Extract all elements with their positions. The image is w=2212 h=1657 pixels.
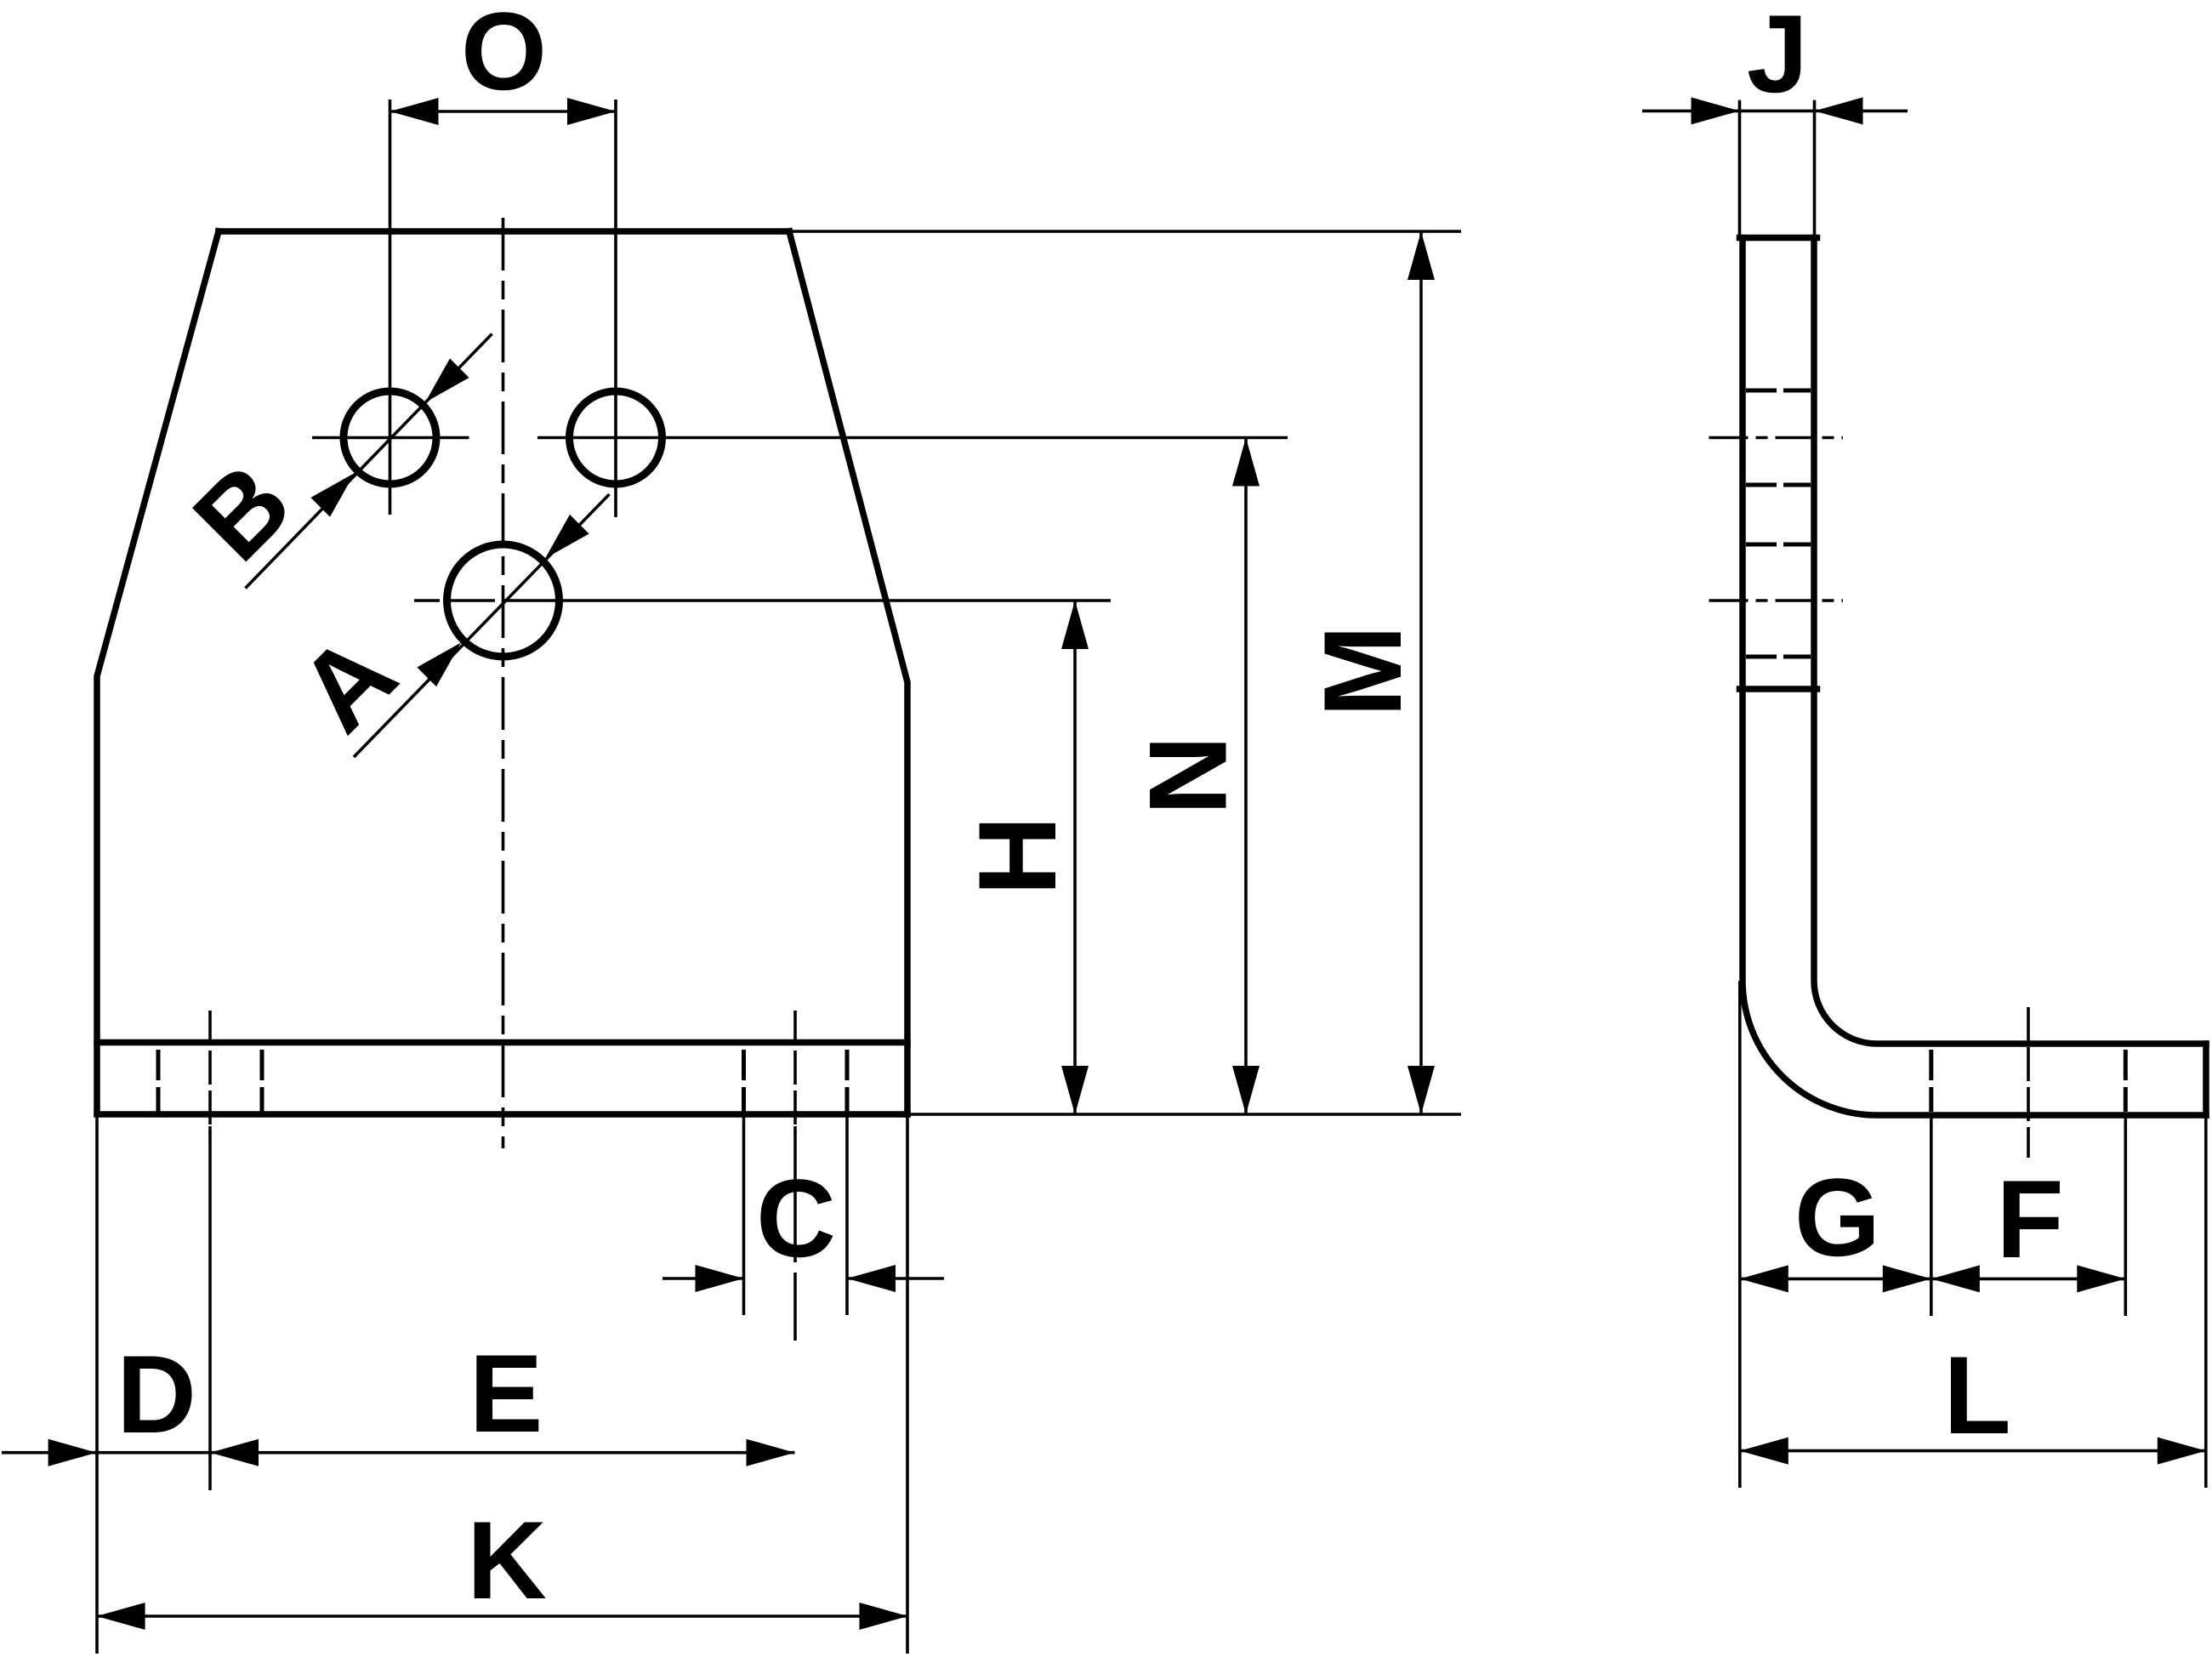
svg-text:F: F <box>1996 1157 2063 1281</box>
svg-text:K: K <box>467 1498 547 1622</box>
svg-text:N: N <box>1126 736 1250 816</box>
svg-text:O: O <box>461 0 547 113</box>
svg-text:G: G <box>1794 1155 1880 1279</box>
svg-text:D: D <box>117 1332 196 1456</box>
svg-text:J: J <box>1747 0 1808 116</box>
svg-text:L: L <box>1943 1333 2010 1457</box>
svg-text:H: H <box>955 816 1079 896</box>
svg-text:C: C <box>756 1156 836 1280</box>
svg-text:M: M <box>1300 625 1424 717</box>
svg-text:E: E <box>469 1331 543 1455</box>
